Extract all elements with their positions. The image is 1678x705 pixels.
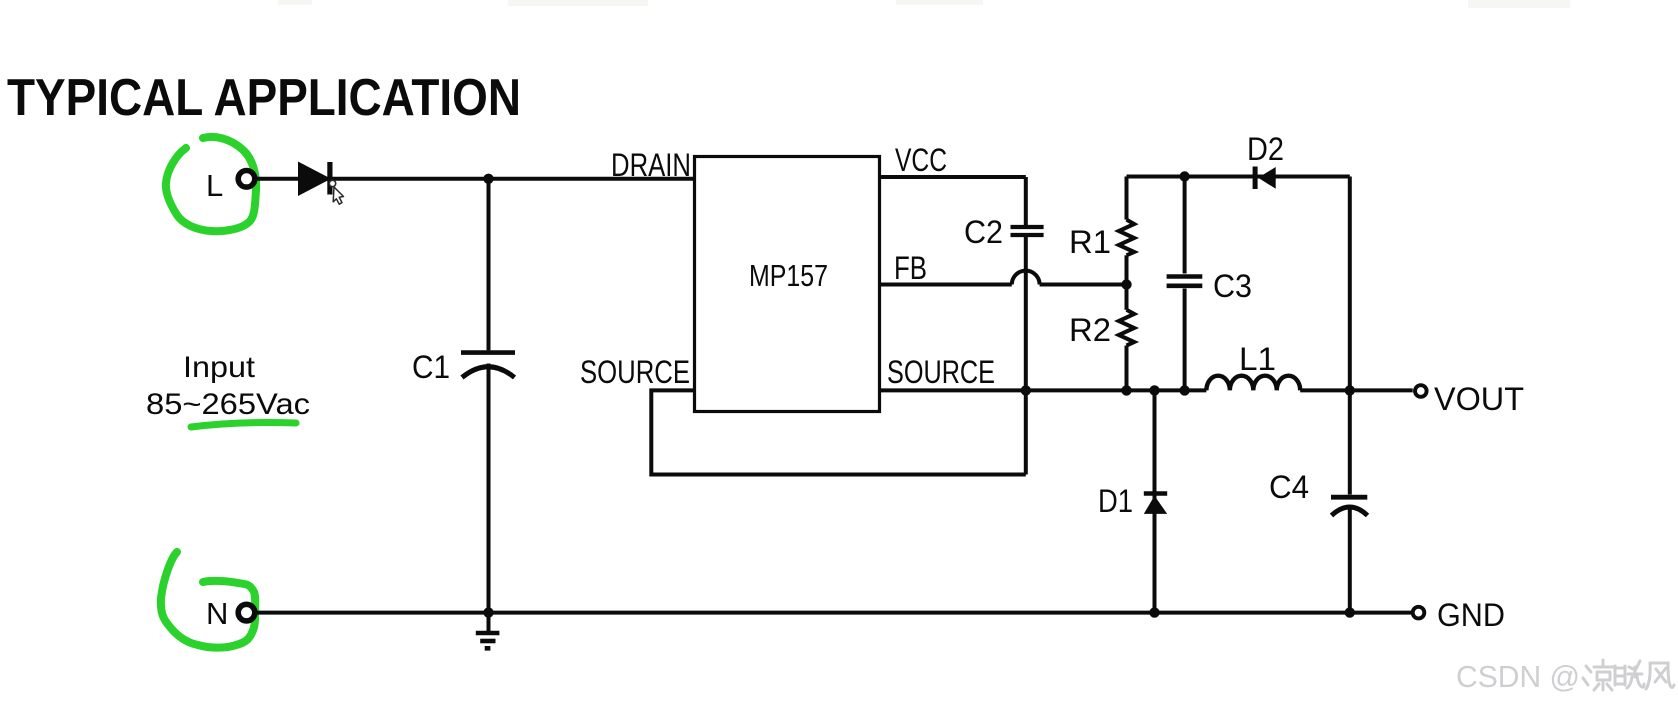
svg-text:MP157: MP157	[749, 258, 828, 293]
svg-text:R2: R2	[1069, 312, 1111, 348]
capacitor C3	[1167, 177, 1203, 391]
terminal VOUT	[1415, 385, 1427, 397]
wire N to GND terminal	[256, 611, 1413, 615]
capacitor C1	[461, 179, 515, 613]
watermark CJK glyphs	[1583, 660, 1674, 690]
wire VCC	[880, 175, 1026, 179]
node junction dot C3 bottom	[1179, 385, 1189, 395]
svg-text:C1: C1	[412, 349, 450, 385]
svg-text:VCC: VCC	[895, 142, 947, 178]
svg-text:D2: D2	[1247, 131, 1284, 167]
wire SOURCE net	[880, 388, 1207, 392]
capacitor C4	[1331, 497, 1368, 612]
diode D2	[1253, 167, 1276, 190]
svg-text:GND: GND	[1437, 597, 1505, 633]
svg-text:N: N	[206, 596, 228, 631]
svg-text:FB: FB	[894, 250, 927, 286]
node FB junction dot	[1121, 279, 1131, 289]
terminal GND	[1413, 607, 1425, 619]
capacitor C2	[1011, 227, 1044, 235]
svg-text:DRAIN: DRAIN	[611, 147, 691, 183]
faint cropped marks at top edge (decorative, near-white)	[278, 0, 1570, 8]
terminal L	[238, 171, 255, 188]
svg-text:D1: D1	[1098, 483, 1133, 519]
green annotation circle around N terminal	[161, 552, 255, 648]
svg-text:R1: R1	[1069, 224, 1111, 260]
resistor R1	[1119, 177, 1134, 285]
svg-text:TYPICAL APPLICATION: TYPICAL APPLICATION	[7, 69, 521, 127]
terminal N	[238, 604, 255, 621]
op-amp U1 MP157 box	[695, 157, 880, 412]
wire SOURCE return loop	[651, 390, 1026, 474]
resistor R2	[1119, 285, 1134, 391]
node junction dot D2/C4	[1345, 385, 1355, 395]
wire L to DRAIN	[257, 177, 695, 181]
diode D1	[1144, 390, 1167, 612]
node junction dot VCC/source	[1021, 385, 1031, 395]
green annotation circle around L terminal	[166, 137, 256, 231]
node junction dot C3 top	[1179, 171, 1189, 181]
svg-text:C3: C3	[1213, 268, 1252, 304]
svg-text:Input: Input	[183, 351, 256, 384]
wire L1 to VOUT	[1300, 388, 1413, 392]
svg-text:CSDN @: CSDN @	[1456, 659, 1580, 694]
wire FB with hop over C2 line	[880, 271, 1127, 285]
inductor L1	[1206, 376, 1300, 391]
node junction dot D1 bottom	[1149, 607, 1159, 617]
green underline annotation	[191, 423, 296, 428]
wire VCC vertical through C2 down to source junction	[1024, 177, 1028, 225]
mouse cursor	[329, 180, 343, 204]
wire top-right net R1 to D2 corner	[1127, 175, 1350, 179]
ground symbol	[476, 613, 500, 649]
wire D2 right vertical	[1348, 177, 1352, 495]
node junction dot C1 top	[483, 174, 493, 184]
node junction dot C4 bottom	[1345, 607, 1355, 617]
node junction dot R2 bottom	[1121, 385, 1131, 395]
svg-text:85~265Vac: 85~265Vac	[146, 388, 310, 421]
svg-text:L: L	[206, 168, 223, 203]
svg-text:C4: C4	[1269, 469, 1309, 505]
node junction dot D1 top	[1149, 385, 1159, 395]
svg-text:VOUT: VOUT	[1434, 381, 1524, 417]
svg-text:SOURCE: SOURCE	[887, 354, 995, 390]
svg-text:C2: C2	[964, 214, 1003, 250]
svg-text:L1: L1	[1239, 341, 1276, 377]
svg-text:SOURCE: SOURCE	[580, 354, 690, 390]
diode input rectifier	[298, 162, 333, 197]
junction dot at C1 / GND line	[483, 607, 493, 617]
